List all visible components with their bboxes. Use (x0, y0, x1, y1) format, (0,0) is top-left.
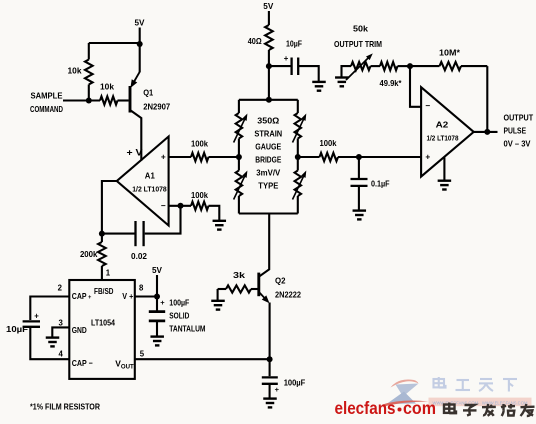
svg-text:2: 2 (58, 284, 63, 293)
svg-text:10µF: 10µF (286, 39, 302, 49)
svg-text:OUTPUT: OUTPUT (504, 113, 534, 123)
svg-text:100k: 100k (320, 138, 337, 148)
svg-text:+: + (275, 385, 280, 394)
svg-text:CAP −: CAP − (72, 358, 93, 368)
svg-text:2N2222: 2N2222 (275, 290, 301, 300)
svg-text:10M*: 10M* (439, 47, 461, 57)
svg-text:1/2 LT1078: 1/2 LT1078 (132, 185, 167, 194)
svg-text:5: 5 (140, 350, 145, 359)
svg-text:0V – 3V: 0V – 3V (504, 138, 531, 148)
svg-text:100µF: 100µF (284, 379, 306, 388)
svg-text:3k: 3k (233, 270, 245, 280)
svg-text:+: + (34, 312, 39, 321)
svg-text:1: 1 (106, 269, 111, 278)
svg-text:LT1054: LT1054 (91, 318, 115, 328)
svg-text:2N2907: 2N2907 (143, 102, 170, 112)
svg-text:3mV/V: 3mV/V (256, 168, 280, 178)
svg-text:0.1µF: 0.1µF (371, 180, 390, 189)
svg-text:10k: 10k (68, 66, 82, 76)
svg-text:200k: 200k (80, 249, 98, 259)
svg-text:GAUGE: GAUGE (255, 142, 281, 152)
svg-text:100k: 100k (191, 139, 208, 149)
svg-text:40Ω: 40Ω (248, 36, 262, 46)
svg-text:5V: 5V (135, 18, 145, 28)
svg-text:0.02: 0.02 (131, 251, 147, 261)
svg-text:5V: 5V (263, 1, 273, 11)
svg-text:8: 8 (139, 284, 144, 293)
svg-text:*1% FILM RESISTOR: *1% FILM RESISTOR (30, 402, 100, 412)
svg-text:4: 4 (58, 350, 63, 359)
svg-text:STRAIN: STRAIN (254, 129, 282, 139)
svg-text:+: + (161, 152, 166, 162)
svg-text:elecfans: elecfans (335, 398, 396, 418)
svg-text:Q1: Q1 (143, 88, 153, 98)
svg-text:350Ω: 350Ω (257, 116, 279, 126)
svg-text:100µF: 100µF (169, 299, 189, 308)
svg-text:PULSE: PULSE (504, 125, 527, 135)
svg-text:FB/SD: FB/SD (94, 287, 114, 296)
svg-text:GND: GND (72, 325, 87, 335)
svg-text:3: 3 (58, 319, 63, 328)
svg-text:10µF: 10µF (6, 325, 28, 334)
svg-text:SAMPLE: SAMPLE (31, 91, 63, 101)
svg-text:100k: 100k (191, 190, 208, 200)
svg-text:V +: V + (122, 291, 133, 301)
svg-text:+: + (425, 152, 430, 162)
svg-text:+: + (160, 298, 165, 307)
svg-text:+ V: + V (127, 148, 143, 158)
svg-text:+: + (284, 54, 289, 63)
svg-text:10k: 10k (100, 81, 114, 91)
svg-text:TANTALUM: TANTALUM (169, 325, 205, 334)
svg-text:49.9k*: 49.9k* (380, 78, 403, 88)
svg-text:OUTPUT TRIM: OUTPUT TRIM (334, 39, 382, 49)
svg-text:SOLID: SOLID (169, 312, 189, 321)
svg-text:A2: A2 (436, 120, 449, 130)
svg-text:BRIDGE: BRIDGE (255, 155, 281, 165)
svg-text:−: − (161, 201, 166, 211)
svg-text:1/2 LT1078: 1/2 LT1078 (427, 134, 459, 143)
svg-text:50k: 50k (353, 24, 368, 34)
svg-text:Q2: Q2 (275, 276, 286, 286)
svg-text:com: com (403, 398, 436, 418)
svg-text:TYPE: TYPE (258, 181, 278, 191)
svg-text:−: − (425, 101, 430, 111)
svg-text:A1: A1 (145, 171, 155, 181)
svg-text:5V: 5V (152, 265, 162, 275)
svg-text:COMMAND: COMMAND (30, 104, 63, 114)
